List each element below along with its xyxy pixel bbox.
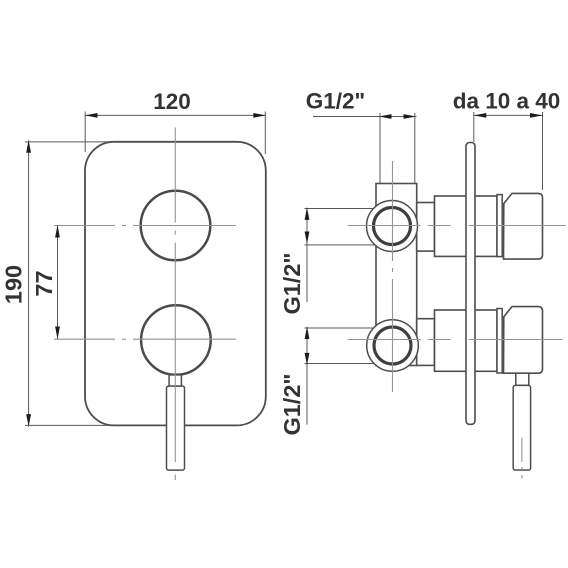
dimension da arrow right	[530, 113, 543, 118]
centerline bottom row horizontal	[348, 339, 563, 341]
dimension G1/2 top extension left	[379, 113, 381, 183]
cartridge housing bottom	[435, 310, 498, 371]
knob 1 front	[141, 191, 211, 261]
pipe inlet top lines	[305, 208, 378, 210]
port circle bottom inner	[374, 327, 411, 364]
dimension 190 extension bottom	[25, 424, 111, 426]
front view: wall plate	[85, 142, 266, 426]
centerline vertical front	[174, 128, 176, 463]
dimension G1/2 top line	[313, 116, 417, 118]
centerline rod side	[521, 438, 523, 479]
dimension 77 line	[57, 225, 59, 339]
ring top	[497, 195, 502, 257]
dimension G1/2 top arrow right	[404, 114, 417, 119]
inlet top arrow down	[305, 232, 310, 245]
dimension G1/2 top arrow left	[379, 114, 392, 119]
dimension 120 line	[85, 114, 266, 116]
dimension G1/2 inlet bottom line	[306, 327, 308, 425]
svg-text:G1/2": G1/2"	[279, 252, 305, 314]
lever neck front	[169, 375, 181, 386]
dimension 120 extension right	[264, 112, 266, 155]
centerline knob2 horizontal (77 extension bottom)	[54, 338, 236, 340]
svg-text:190: 190	[1, 265, 27, 304]
port circle top inner	[374, 208, 411, 245]
dimension da 10 a 40 line	[474, 114, 543, 116]
dimension 190 arrow top	[26, 140, 31, 153]
lever rod front	[167, 386, 185, 470]
knob top side	[504, 193, 543, 259]
centerline vertical front below lever	[174, 475, 176, 480]
lever rod side	[513, 385, 530, 470]
inlet bottom arrow up	[305, 327, 310, 340]
centerline top row horizontal	[348, 225, 566, 227]
cartridge housing top	[435, 196, 498, 256]
dimension 190 arrow bottom	[26, 414, 31, 427]
top outlet stub	[417, 203, 435, 252]
dimension G1/2 inlet top line	[306, 208, 308, 302]
pipe inlet bottom lines	[305, 327, 378, 329]
knob bottom side	[504, 307, 543, 374]
svg-text:da 10 a 40: da 10 a 40	[453, 88, 561, 113]
ring bottom	[497, 309, 502, 374]
dimension da extension left	[473, 112, 475, 142]
inlet bottom arrow down	[305, 353, 310, 366]
inlet top arrow up	[305, 207, 310, 220]
svg-text:120: 120	[153, 89, 191, 114]
side view: valve body	[376, 184, 417, 366]
svg-text:G1/2": G1/2"	[306, 88, 365, 113]
centerline body vertical	[392, 161, 394, 392]
dimension 120 arrow right	[253, 113, 265, 118]
port circle top outer	[367, 201, 418, 252]
port circle bottom outer	[367, 320, 419, 372]
dimension 77 arrow bottom	[55, 327, 60, 340]
bottom outlet stub	[417, 319, 435, 366]
svg-text:77: 77	[31, 270, 57, 296]
dimension 190 extension top	[25, 141, 115, 143]
centerline knob1 horizontal (77 extension top)	[54, 225, 236, 227]
knob 2 front	[141, 305, 211, 375]
dimension 120 arrow left	[85, 113, 98, 118]
lever neck side	[516, 373, 529, 385]
mounting plate side view	[466, 143, 475, 425]
svg-text:G1/2": G1/2"	[279, 373, 305, 435]
dimension da arrow left	[474, 113, 487, 118]
dimension 120 extension left	[84, 112, 86, 153]
dimension da extension right	[542, 112, 544, 190]
dimension 77 arrow top	[55, 225, 60, 238]
dimension G1/2 top extension right	[414, 113, 416, 183]
dimension 190 line	[28, 140, 30, 426]
